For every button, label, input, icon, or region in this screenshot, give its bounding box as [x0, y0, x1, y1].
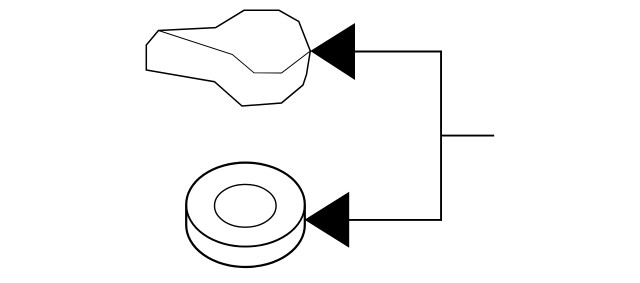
leader arrow to part 2 grommet	[305, 192, 350, 248]
part 2 grommet outer silhouette	[186, 163, 305, 267]
wire from ring arrow to vertical bus	[347, 219, 442, 221]
wire from cap arrow to vertical bus	[353, 51, 442, 53]
stub wire	[441, 135, 494, 137]
part 1 cap outer outline	[146, 10, 310, 106]
part 2 grommet top face lower edge	[186, 205, 305, 247]
vertical bus wire	[440, 51, 442, 221]
part 2 grommet hole	[215, 184, 277, 227]
leader arrow to part 1 cap	[310, 23, 355, 80]
part 1 cap inner contour line	[159, 31, 311, 74]
